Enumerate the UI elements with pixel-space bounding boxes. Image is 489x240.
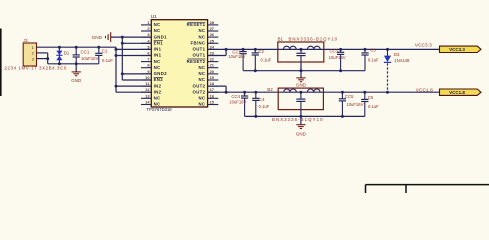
- svg-text:NC: NC: [154, 102, 161, 107]
- svg-text:1: 1: [147, 20, 150, 25]
- svg-text:10uF16V: 10uF16V: [346, 102, 363, 107]
- U1 pin 10 (EN2): [141, 75, 163, 82]
- svg-text:GND1: GND1: [154, 34, 168, 39]
- svg-text:27: 27: [210, 26, 214, 31]
- wire to pin 6: [116, 55, 151, 57]
- svg-text:TPS767D318: TPS767D318: [147, 107, 173, 112]
- wire to pin 4: [122, 42, 151, 44]
- U1 pin 22 (RESET2): [187, 57, 219, 64]
- svg-text:VCC1.8: VCC1.8: [449, 90, 465, 95]
- svg-text:GND2: GND2: [154, 71, 168, 76]
- sheet border segment: [0, 29, 2, 97]
- svg-text:NC: NC: [198, 28, 205, 33]
- U1 pin 28 (RESET1): [187, 20, 219, 27]
- junction D1 bottom: [58, 62, 61, 65]
- svg-text:C3: C3: [370, 48, 376, 53]
- svg-text:10uF16V: 10uF16V: [228, 54, 245, 59]
- svg-text:OUT1: OUT1: [193, 47, 206, 52]
- U1 pin 14 (NC): [141, 100, 161, 107]
- junction CC4 top: [243, 91, 246, 94]
- svg-text:10uF16V: 10uF16V: [329, 55, 346, 60]
- svg-text:VCC3.3: VCC3.3: [415, 42, 432, 47]
- svg-text:GND: GND: [296, 82, 307, 87]
- svg-text:4: 4: [147, 38, 150, 43]
- junction VIN pin11: [115, 85, 118, 88]
- svg-text:C2: C2: [258, 49, 264, 54]
- svg-text:B2: B2: [267, 87, 273, 92]
- junction CC1 top: [75, 46, 78, 49]
- U1 pin 20 (NC): [198, 69, 218, 76]
- ground B1: [296, 78, 305, 82]
- filter B1 box: [278, 42, 324, 62]
- wire VCC3.3 rail: [208, 48, 439, 50]
- wire OUT2 tie: [225, 86, 227, 92]
- svg-text:0.1uF: 0.1uF: [259, 104, 270, 109]
- junction CC2 top: [242, 48, 245, 51]
- svg-text:VCC1.8: VCC1.8: [416, 87, 433, 92]
- wire VIN rail from J1 pin1: [37, 46, 117, 48]
- svg-text:OUT2: OUT2: [193, 89, 206, 94]
- junction GND bus top: [121, 36, 124, 39]
- U1 pin 15 (NC): [198, 100, 218, 107]
- svg-text:9: 9: [147, 69, 150, 74]
- junction D3 top: [386, 48, 389, 51]
- U1 pin 23 (OUT1): [193, 51, 219, 58]
- svg-text:26: 26: [210, 32, 215, 37]
- U1 pin 9 (GND2): [141, 69, 167, 76]
- junction J1 pin3: [46, 57, 49, 60]
- capacitor C5: [361, 92, 368, 116]
- svg-text:CC5: CC5: [345, 94, 354, 99]
- svg-text:21: 21: [210, 63, 215, 68]
- inductor L in B2 left: [284, 89, 297, 92]
- op-amp U1 body (regulator TPS767D318): [151, 20, 207, 107]
- svg-text:VCC3.3: VCC3.3: [449, 47, 465, 52]
- svg-text:15: 15: [210, 100, 215, 105]
- U1 pin 11 (IN2): [141, 81, 162, 88]
- junction VIN pin6: [115, 54, 118, 57]
- svg-text:C5: C5: [368, 95, 374, 100]
- svg-text:2: 2: [147, 26, 150, 31]
- svg-text:NC: NC: [198, 102, 205, 107]
- diode D1 (TVS): [56, 47, 62, 64]
- svg-text:NC: NC: [198, 65, 205, 70]
- capacitor C2: [252, 49, 259, 70]
- junction VIN pin5: [115, 48, 118, 51]
- wire OUT1 pin23: [208, 55, 227, 57]
- capacitor C4: [252, 92, 259, 116]
- junction C4 top: [254, 91, 257, 94]
- svg-text:22: 22: [210, 57, 215, 62]
- junction C2 top: [254, 48, 257, 51]
- svg-text:8: 8: [147, 63, 150, 68]
- svg-text:FB/NC: FB/NC: [191, 41, 206, 46]
- wire J1 ground drop: [47, 53, 49, 64]
- svg-text:28: 28: [210, 20, 215, 25]
- svg-text:17: 17: [210, 87, 214, 92]
- wire J1 pin3: [37, 58, 48, 60]
- U1 pin 6 (IN1): [141, 51, 162, 58]
- diode D3: [384, 49, 391, 62]
- wire GND bus vertical: [121, 37, 123, 80]
- junction GND pin4: [121, 42, 124, 45]
- ground symbol sideways at IC: [106, 32, 111, 42]
- U1 pin 18 (OUT2): [193, 81, 219, 88]
- svg-text:BNX3336-B1QY10: BNX3336-B1QY10: [289, 36, 338, 41]
- wire ground rail 1.8V section: [245, 115, 365, 117]
- U1 pin 8 (NC): [141, 63, 161, 70]
- svg-text:BNX3336-B1QY10: BNX3336-B1QY10: [272, 117, 324, 122]
- junction GND pin9: [121, 72, 124, 75]
- U1 pin 27 (NC): [198, 26, 218, 33]
- svg-text:14: 14: [145, 100, 150, 105]
- svg-text:16: 16: [210, 93, 215, 98]
- junction OUT2: [225, 91, 228, 94]
- svg-text:CC1: CC1: [81, 49, 90, 54]
- svg-text:5: 5: [147, 44, 150, 49]
- junction CC3 bottom: [339, 69, 342, 72]
- svg-text:7: 7: [147, 57, 149, 62]
- wire VIN bus vertical: [115, 47, 117, 92]
- capacitor CC3: [337, 49, 344, 70]
- ground B2: [296, 125, 305, 129]
- junction B1 cap top: [300, 48, 303, 51]
- junction C1 top: [97, 46, 100, 49]
- U1 pin 3 (GND1): [141, 32, 167, 39]
- svg-text:RESET1: RESET1: [187, 22, 206, 27]
- wire J1 pin2: [37, 52, 48, 54]
- svg-text:12: 12: [145, 87, 150, 92]
- svg-text:24: 24: [210, 44, 215, 49]
- svg-text:NC: NC: [198, 71, 205, 76]
- capacitor in B1: [296, 49, 305, 62]
- wire OUT1 tie: [225, 49, 227, 55]
- ground left: [72, 72, 81, 76]
- svg-text:CC3: CC3: [330, 48, 339, 53]
- svg-text:0.1uF: 0.1uF: [368, 104, 379, 109]
- U1 pin 5 (IN1): [141, 44, 162, 51]
- wire B1 to ground: [300, 62, 302, 78]
- wire to pin 9: [122, 73, 151, 75]
- svg-text:EN2: EN2: [154, 77, 164, 82]
- svg-text:IN2: IN2: [154, 89, 162, 94]
- U1 pin 4 (EN1): [141, 38, 163, 45]
- svg-text:GND: GND: [296, 131, 307, 136]
- svg-text:U1: U1: [151, 14, 157, 19]
- connector J1: [23, 43, 36, 66]
- svg-text:NC: NC: [154, 28, 161, 33]
- svg-text:1N4148: 1N4148: [394, 58, 410, 63]
- svg-text:13: 13: [145, 93, 150, 98]
- U1 pin 21 (NC): [198, 63, 218, 70]
- svg-text:10uF16V: 10uF16V: [229, 100, 246, 105]
- svg-text:0.1uF: 0.1uF: [368, 58, 379, 63]
- junction CC1 bottom: [75, 62, 78, 65]
- svg-text:3: 3: [147, 32, 150, 37]
- svg-text:0.1uF: 0.1uF: [102, 58, 113, 63]
- svg-text:GND: GND: [71, 78, 82, 83]
- port VCC3.3: [440, 46, 482, 52]
- capacitor in B2: [296, 92, 305, 109]
- svg-text:EN1: EN1: [154, 41, 164, 46]
- capacitor CC4: [241, 92, 248, 116]
- svg-text:C4: C4: [259, 97, 265, 102]
- title block lines: [366, 185, 489, 193]
- junction B1 ground rail: [300, 69, 303, 72]
- wire D3 to VCC1.8 rail (dashed): [387, 63, 389, 92]
- U1 pin 19 (NC): [198, 75, 218, 82]
- svg-text:NC: NC: [198, 34, 205, 39]
- junction OUT1: [225, 48, 228, 51]
- inductor L in B1 right: [307, 46, 320, 49]
- wire to ground: [75, 64, 77, 72]
- junction B2 cap top: [299, 91, 302, 94]
- U1 pin 26 (NC): [198, 32, 218, 39]
- junction C3 top: [364, 48, 367, 51]
- svg-text:11: 11: [145, 81, 150, 86]
- svg-text:20: 20: [210, 69, 214, 74]
- svg-text:CC4: CC4: [231, 94, 240, 99]
- wire ground rail left: [48, 63, 99, 65]
- inductor L in B2 right: [307, 89, 320, 92]
- U1 pin 7 (NC): [141, 57, 161, 64]
- svg-text:GND: GND: [92, 35, 103, 40]
- wire B2 to ground: [300, 110, 302, 125]
- capacitor CC2: [240, 49, 247, 70]
- wire ground rail 3.3V section: [243, 70, 365, 72]
- svg-text:25: 25: [210, 38, 215, 43]
- U1 pin 24 (OUT1): [193, 44, 219, 51]
- junction C2 bottom: [254, 69, 257, 72]
- U1 pin 13 (NC): [141, 93, 161, 100]
- U1 pin 17 (OUT2): [193, 87, 219, 94]
- wire GND to pin 3: [111, 36, 152, 38]
- svg-text:10: 10: [145, 75, 149, 80]
- svg-text:NC: NC: [154, 96, 161, 101]
- junction D1 top: [58, 46, 61, 49]
- svg-text:NC: NC: [198, 96, 205, 101]
- wire to pin 11: [116, 85, 151, 87]
- svg-text:OUT1: OUT1: [193, 53, 206, 58]
- wire to pin 12: [116, 91, 151, 93]
- junction C4 bottom: [254, 115, 257, 118]
- svg-text:NC: NC: [154, 65, 161, 70]
- wire OUT2 pin18: [208, 85, 227, 87]
- svg-text:D1: D1: [64, 51, 70, 56]
- U1 pin 2 (NC): [141, 26, 161, 33]
- junction B2 ground rail: [299, 115, 302, 118]
- svg-text:J1: J1: [23, 38, 28, 43]
- junction C5 top: [363, 91, 366, 94]
- svg-text:OUT2: OUT2: [193, 83, 206, 88]
- svg-text:19: 19: [210, 75, 215, 80]
- wire VCC1.8 rail: [208, 91, 439, 93]
- wire to pin 5: [116, 48, 151, 50]
- port VCC1.8: [440, 89, 482, 95]
- svg-text:B1: B1: [278, 36, 284, 41]
- svg-text:NC: NC: [198, 77, 205, 82]
- svg-text:IN2: IN2: [154, 83, 162, 88]
- svg-text:2234 1MV-17 3X2B4.3C0: 2234 1MV-17 3X2B4.3C0: [5, 65, 67, 70]
- junction CC5 top: [341, 91, 344, 94]
- junction CC3 top: [339, 48, 342, 51]
- U1 pin 1 (NC): [141, 20, 161, 27]
- wire to pin 10: [122, 79, 151, 81]
- U1 pin 25 (FB/NC): [191, 38, 219, 45]
- svg-text:C1: C1: [102, 48, 108, 53]
- U1 pin 16 (NC): [198, 93, 218, 100]
- svg-text:D3: D3: [394, 52, 400, 57]
- junction CC5 bottom: [341, 115, 344, 118]
- svg-text:IN1: IN1: [154, 47, 162, 52]
- U1 pin 12 (IN2): [141, 87, 162, 94]
- inductor L in B1 left: [283, 46, 296, 49]
- svg-text:IN1: IN1: [154, 53, 162, 58]
- capacitor C1: [95, 47, 102, 64]
- junction D3 bottom: [386, 91, 389, 94]
- svg-text:10uF16V: 10uF16V: [81, 56, 99, 61]
- svg-text:0.1uF: 0.1uF: [261, 58, 272, 63]
- svg-text:23: 23: [210, 51, 215, 56]
- filter B2 box: [278, 88, 323, 110]
- svg-text:NC: NC: [154, 22, 161, 27]
- capacitor CC5: [339, 92, 346, 116]
- svg-text:18: 18: [210, 81, 215, 86]
- svg-text:6: 6: [147, 51, 150, 56]
- svg-text:RESET2: RESET2: [187, 59, 206, 64]
- capacitor CC1: [73, 47, 80, 64]
- capacitor C3: [361, 49, 368, 70]
- svg-text:NC: NC: [154, 59, 161, 64]
